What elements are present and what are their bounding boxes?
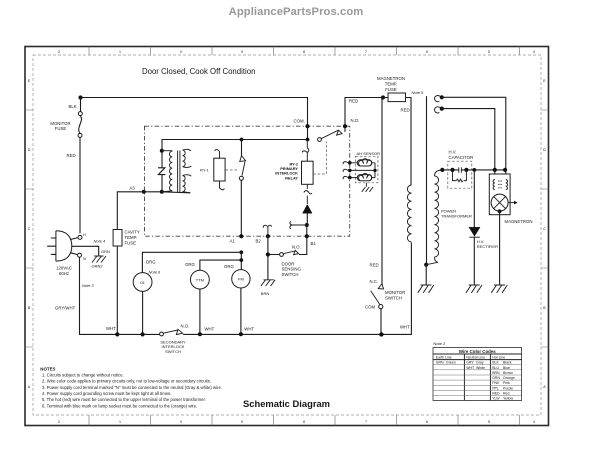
svg-text:A1: A1 [230, 239, 236, 244]
svg-text:GRN: GRN [101, 249, 110, 254]
svg-text:7: 7 [365, 50, 367, 54]
node transformer primary top [160, 149, 164, 153]
svg-text:GRN2: GRN2 [92, 264, 104, 269]
node above B1 with connector stub [305, 223, 309, 227]
secondary interlock switch S2 [160, 332, 164, 336]
wire N.O. drop from top rail [344, 98, 346, 132]
svg-text:GRN: GRN [436, 361, 444, 365]
svg-text:A3: A3 [130, 186, 136, 191]
svg-text:N.O.: N.O. [351, 118, 360, 123]
wire transformer bottom bus [162, 192, 190, 193]
svg-text:N.C.: N.C. [370, 279, 379, 284]
node monitor switch / rail [379, 332, 383, 336]
node B1 [305, 234, 309, 238]
connector stub above B2 [263, 225, 271, 236]
svg-text:Door Closed, Cook Off Conditio: Door Closed, Cook Off Condition [142, 67, 255, 76]
svg-text:5: 5 [488, 420, 490, 424]
svg-text:RELAY: RELAY [285, 175, 298, 180]
svg-text:SWITCH: SWITCH [165, 349, 181, 354]
node rail-interlock-switch junction [240, 138, 244, 142]
door sensing switch S3 [270, 254, 280, 256]
power transformer T2 primary winding [407, 185, 411, 242]
node A3 [142, 190, 146, 194]
svg-text:60Hz: 60Hz [59, 271, 69, 276]
svg-text:1: 1 [119, 420, 121, 424]
AH sensor pin nodes on box edge [348, 161, 352, 165]
wire rail N.O.-corner to transformer drop [345, 98, 411, 186]
label RY-2 PRIMARY INTERLOCK RELAY [275, 161, 299, 180]
mechanical link RY-2 [313, 142, 326, 175]
svg-text:RED: RED [401, 108, 410, 113]
svg-text:Note 4: Note 4 [94, 239, 107, 244]
svg-text:N.O.: N.O. [181, 324, 190, 329]
svg-text:WHT: WHT [400, 325, 410, 330]
chassis ground (transformer) [418, 285, 434, 293]
node fuse junction [381, 95, 385, 99]
svg-text:8: 8 [303, 50, 305, 54]
svg-text:AH SENSOR: AH SENSOR [357, 151, 381, 156]
svg-text:Earth Line: Earth Line [436, 355, 452, 359]
wire neutral rail left [80, 333, 160, 335]
svg-text:N.O.: N.O. [292, 244, 301, 249]
svg-text:Brown: Brown [503, 371, 513, 375]
svg-text:Pink: Pink [503, 381, 510, 385]
chassis ground (magnetron) [491, 285, 507, 293]
svg-text:9: 9 [241, 420, 243, 424]
svg-text:N: N [83, 256, 86, 261]
node N.O. [343, 124, 347, 128]
svg-text:MAGNETRON: MAGNETRON [505, 219, 533, 224]
node COM on box edge [305, 124, 309, 128]
frame zone ticks [25, 47, 549, 426]
chassis ground (rectifier) [466, 285, 482, 293]
chassis ground GRN2 [92, 256, 106, 263]
svg-text:9: 9 [241, 50, 243, 54]
chassis ground BRN [261, 280, 275, 286]
svg-text:0: 0 [180, 50, 182, 54]
diode D1 (in RY-2 branch, pointing up) [303, 205, 312, 214]
svg-text:Schematic Diagram: Schematic Diagram [243, 398, 330, 409]
svg-text:Blue: Blue [503, 366, 510, 370]
node HV rail dots [440, 168, 444, 172]
svg-text:3. Power supply cord terminal: 3. Power supply cord terminal marked “N”… [42, 385, 222, 390]
H.V. capacitor C1 [448, 161, 472, 188]
svg-text:6: 6 [426, 50, 428, 54]
svg-text:SWITCH: SWITCH [282, 272, 299, 277]
wire node to B1 [306, 227, 308, 236]
relay RY-2 switch blade and contact [321, 130, 342, 139]
wire ORG rail [142, 251, 241, 253]
wire filament lead 2 to magnetron [442, 109, 495, 180]
wire door switch to chassis ground (BRN) [267, 257, 269, 280]
node A1 [239, 234, 243, 238]
magnetron temp fuse F3 [388, 93, 406, 102]
svg-text:C: C [28, 227, 31, 231]
frame zone labels [28, 50, 547, 424]
relay coil RY-2 [302, 161, 314, 184]
wire H.V. rail [442, 169, 505, 171]
monitor switch S1 [378, 284, 383, 290]
svg-text:GRY: GRY [466, 361, 474, 365]
wire interlock top rail (COM side) [162, 126, 308, 151]
svg-text:CAVITY: CAVITY [125, 230, 140, 235]
wire T2 center to ground [425, 265, 427, 285]
cavity temp fuse F1 [113, 230, 122, 247]
node transformer primary bottom [160, 190, 164, 194]
wire plug N down to neutral rail [79, 257, 81, 334]
svg-text:H: H [83, 232, 86, 237]
RY-2 thermal element squiggle [304, 184, 312, 204]
svg-text:B1: B1 [311, 241, 317, 246]
relay coil RY-1 [214, 158, 225, 181]
wire filament lead 1 to magnetron [442, 97, 506, 179]
svg-text:6. Terminal with blue mark on: 6. Terminal with blue mark on lamp socke… [42, 403, 197, 408]
svg-text:OL: OL [140, 280, 146, 285]
svg-text:BRN: BRN [261, 291, 270, 296]
node T2 center [424, 263, 428, 267]
interlock assembly dashed enclosure [145, 126, 350, 236]
svg-text:Note 2: Note 2 [433, 341, 446, 346]
H.V. rectifier D2 [473, 170, 475, 285]
notes block [40, 366, 222, 408]
svg-text:GRY/WHT: GRY/WHT [55, 306, 76, 311]
wire TTM sub-rail [200, 252, 241, 269]
svg-text:RED: RED [349, 99, 358, 104]
svg-text:TEMP.: TEMP. [385, 82, 398, 87]
svg-text:MAGNETRON: MAGNETRON [377, 76, 405, 81]
svg-text:C: C [543, 227, 546, 231]
frame inner border [33, 55, 541, 415]
svg-text:WHT: WHT [244, 327, 254, 332]
svg-text:FUSE: FUSE [125, 241, 137, 246]
svg-text:4: 4 [533, 420, 535, 424]
varistor Z branch [158, 153, 165, 190]
node door switch junction [266, 252, 270, 256]
connector curls (filament leads) [435, 96, 442, 113]
svg-text:2. Wire color code applies to: 2. Wire color code applies to primary ci… [42, 379, 211, 384]
node BLK junction top-left [78, 95, 82, 99]
svg-text:Yellow: Yellow [503, 397, 513, 401]
wire door switch N.O. up to B1 [306, 236, 308, 254]
wire color codes table [433, 348, 522, 401]
svg-text:TRANSFORMER: TRANSFORMER [441, 214, 472, 219]
magnetron V1 [489, 174, 517, 215]
svg-text:BLK: BLK [69, 104, 77, 109]
svg-text:TEMP.: TEMP. [125, 235, 138, 240]
svg-text:0: 0 [180, 420, 182, 424]
svg-text:NOTES: NOTES [40, 366, 55, 371]
AH sensor pin connector hooks [343, 162, 348, 179]
wire B2 down to door switch junction [267, 236, 269, 254]
svg-text:5: 5 [488, 50, 490, 54]
svg-text:FUSE: FUSE [55, 126, 67, 131]
svg-text:Green: Green [446, 361, 456, 365]
wire neutral rail right [184, 243, 412, 334]
svg-text:BLU: BLU [492, 366, 499, 370]
svg-text:Black: Black [503, 361, 512, 365]
transformer T1 core [178, 151, 180, 193]
node TTM / rail [198, 332, 202, 336]
svg-text:COM: COM [365, 305, 375, 310]
svg-text:MONITOR: MONITOR [385, 290, 405, 295]
svg-text:BLK: BLK [492, 361, 499, 365]
plug terminal N [78, 253, 82, 257]
interlock monitor switch (left, on A1 line) [241, 140, 243, 156]
svg-text:2: 2 [58, 50, 60, 54]
wire monitor fuse to plug H [79, 138, 81, 234]
svg-text:RY-1: RY-1 [200, 168, 209, 173]
oven lamp OL [141, 252, 143, 272]
AH sensor ground [362, 183, 373, 192]
svg-text:White: White [476, 366, 485, 370]
svg-text:TTM: TTM [196, 277, 204, 282]
node B2 [266, 234, 270, 238]
node OL / rail [141, 332, 145, 336]
svg-text:PPL: PPL [492, 386, 499, 390]
svg-text:2: 2 [58, 420, 60, 424]
AH sensor assembly [350, 151, 380, 183]
svg-text:WHT: WHT [205, 327, 215, 332]
svg-text:AppliancePartsPros.com: AppliancePartsPros.com [229, 6, 364, 18]
svg-text:FM: FM [238, 277, 244, 282]
svg-text:FUSE: FUSE [385, 87, 397, 92]
svg-text:4. Power supply cord groundin: 4. Power supply cord grounding screw mus… [42, 391, 171, 396]
wire cavity fuse line (neutral rail up to A3) [117, 192, 162, 335]
wire top rail left (BLK) to COM drop [81, 98, 308, 127]
timer motor TTM [199, 260, 201, 270]
svg-text:8: 8 [303, 420, 305, 424]
svg-text:H.V.: H.V. [449, 150, 457, 155]
svg-text:ORG: ORG [146, 259, 156, 264]
svg-text:COM.: COM. [294, 119, 305, 124]
svg-text:WHT: WHT [466, 366, 475, 370]
node rail-RY2coil junction [306, 138, 310, 142]
svg-text:SWITCH: SWITCH [385, 295, 402, 300]
wire switch to node A1 [240, 180, 242, 236]
svg-text:CAPACITOR: CAPACITOR [449, 155, 474, 160]
svg-text:7: 7 [365, 420, 367, 424]
svg-text:B2: B2 [256, 239, 262, 244]
svg-text:RED: RED [370, 263, 379, 268]
svg-text:YLW: YLW [492, 397, 500, 401]
svg-text:D: D [28, 148, 31, 152]
node FM / rail [239, 332, 243, 336]
svg-text:RECTIFIER: RECTIFIER [477, 244, 498, 249]
svg-text:PNK: PNK [492, 381, 500, 385]
svg-text:ORG: ORG [185, 262, 195, 267]
svg-text:RED: RED [67, 153, 76, 158]
svg-text:5. The hot (red) wire must be: 5. The hot (red) wire must be connected … [42, 397, 206, 402]
T2 second primary lead / core line [426, 97, 428, 265]
svg-text:Neutral Line: Neutral Line [466, 355, 485, 359]
svg-text:Hot Line: Hot Line [492, 355, 505, 359]
svg-text:D: D [543, 148, 546, 152]
T2 high voltage secondary winding [435, 170, 443, 176]
mechanical link RY-1 [226, 169, 239, 171]
svg-text:Note 3: Note 3 [82, 283, 95, 288]
svg-text:4: 4 [533, 50, 535, 54]
node cavity fuse / rail [115, 332, 119, 336]
svg-text:ORN: ORN [492, 376, 500, 380]
transformer T1 secondary winding A [183, 149, 192, 151]
fan motor FM [232, 270, 250, 288]
svg-text:Gray: Gray [476, 361, 484, 365]
svg-text:Wire Color Codes: Wire Color Codes [459, 349, 496, 354]
plug terminal H [78, 235, 82, 239]
svg-text:BRN: BRN [492, 371, 500, 375]
svg-text:ORG: ORG [224, 264, 234, 269]
svg-text:1. Circuits subject to change: 1. Circuits subject to change without no… [42, 372, 124, 377]
wire RED drop to monitor switch [381, 98, 383, 284]
svg-text:120VAC: 120VAC [56, 266, 72, 271]
transformer T1 primary winding [162, 150, 172, 152]
svg-text:WHT: WHT [106, 326, 116, 331]
node filament lead 2 [440, 107, 444, 111]
ground wire GRN to chassis [97, 246, 99, 256]
node filament lead 1 [440, 95, 444, 99]
svg-text:Red: Red [503, 392, 509, 396]
svg-text:Purple: Purple [503, 386, 513, 390]
frame outer border [25, 47, 549, 426]
svg-text:1: 1 [119, 50, 121, 54]
svg-text:Orange: Orange [503, 376, 515, 380]
svg-text:Note 6: Note 6 [149, 269, 162, 274]
svg-text:RED: RED [492, 392, 500, 396]
svg-text:Note 5: Note 5 [412, 90, 425, 95]
transformer T1 secondary winding B [183, 175, 192, 176]
wire magnetron cathode to ground [499, 211, 501, 284]
monitor fuse F2 [78, 100, 82, 138]
power plug P1 [48, 231, 97, 261]
svg-text:6: 6 [426, 420, 428, 424]
